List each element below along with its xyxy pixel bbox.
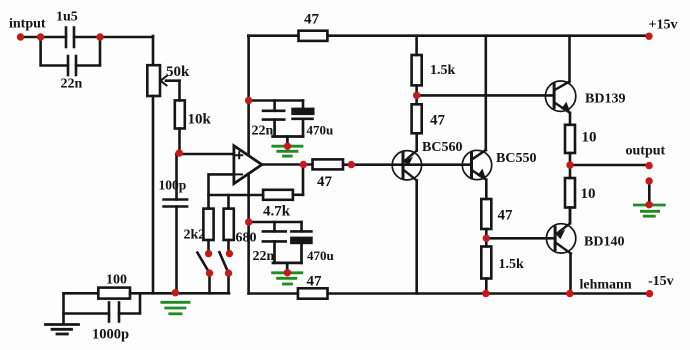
svg-text:BD139: BD139 — [585, 92, 625, 107]
wire 470u lower stub — [300, 222, 303, 231]
wire output ground stub — [648, 183, 651, 204]
svg-text:1.5k: 1.5k — [430, 63, 456, 78]
wire feedback vertical — [302, 165, 305, 195]
wire caps bottom lower — [273, 241, 302, 271]
node input — [17, 33, 24, 40]
svg-text:2k2: 2k2 — [184, 228, 206, 243]
svg-text:10: 10 — [582, 130, 597, 146]
node ground bottom — [284, 269, 291, 276]
svg-text:1000p: 1000p — [92, 327, 129, 343]
svg-text:470u: 470u — [307, 248, 334, 263]
resistor 2k2 — [203, 209, 213, 240]
svg-text:50k: 50k — [166, 64, 190, 80]
capacitor 22n lower — [263, 231, 286, 241]
wire BC550 emitter down — [485, 180, 488, 199]
svg-text:4.7k: 4.7k — [263, 204, 291, 220]
node output gnd top — [645, 177, 652, 184]
ground opamp top (green) — [271, 146, 303, 156]
op-amp U1 — [234, 146, 262, 184]
wire 10 to BD140 — [569, 208, 572, 223]
svg-text:lehmann: lehmann — [580, 278, 632, 293]
node switch1 top — [205, 250, 212, 257]
wire vminus rail — [249, 292, 298, 295]
node 1.5k rail — [482, 290, 489, 297]
wire decouple top — [249, 99, 303, 102]
resistor 680 — [224, 209, 234, 240]
wire pot bottom — [152, 96, 155, 293]
resistor 47 output — [313, 159, 344, 169]
svg-text:10k: 10k — [188, 112, 212, 128]
wire 4.7k right — [293, 194, 303, 197]
capacitor 22n upper — [263, 111, 284, 120]
svg-text:1u5: 1u5 — [56, 10, 78, 25]
node output junction — [566, 161, 573, 168]
node BD139 base — [413, 92, 420, 99]
switch S2 — [219, 240, 228, 293]
wire 22n branch right — [76, 37, 100, 66]
node after 47 — [348, 161, 355, 168]
node +15v — [645, 33, 652, 40]
svg-text:intput: intput — [9, 17, 46, 32]
resistor 10 upper — [565, 125, 575, 153]
wire BD139 collector up — [568, 36, 571, 82]
resistor 100 — [98, 288, 130, 299]
capacitor 100p — [164, 154, 188, 293]
node BD140 base — [483, 235, 490, 242]
transistor BC560 — [392, 151, 421, 181]
resistor 47 bottom — [298, 288, 328, 298]
wire 22n lower stub — [273, 222, 276, 231]
svg-text:BC560: BC560 — [422, 140, 462, 155]
svg-text:470u: 470u — [307, 123, 334, 138]
resistor 1.5k top — [412, 55, 422, 85]
node switch2 top — [226, 250, 233, 257]
wire 2k2 stub — [207, 195, 210, 209]
ground output (green) — [633, 205, 666, 216]
wire 47 to 1.5k right — [485, 229, 488, 247]
wire BD140 base drive — [486, 237, 555, 240]
resistor 1.5k bottom — [481, 247, 491, 279]
node plus input — [176, 149, 183, 156]
resistor 10k — [175, 100, 185, 128]
node output gnd bottom — [645, 201, 652, 208]
svg-text:-15v: -15v — [648, 274, 674, 289]
transistor BD139 — [545, 81, 575, 114]
wire 10k to plus input — [178, 129, 181, 155]
svg-text:22n: 22n — [252, 124, 274, 139]
node ground top — [284, 143, 291, 150]
ground bottom-left — [46, 325, 79, 335]
node rail ground — [172, 289, 179, 296]
svg-text:100p: 100p — [159, 178, 187, 193]
capacitor 470u lower — [291, 231, 311, 243]
resistor 47 top — [299, 31, 328, 41]
node opamp output — [300, 161, 307, 168]
capacitor 22n input — [68, 56, 76, 75]
switch S1 — [197, 240, 209, 293]
wire wiper to 10k — [178, 81, 181, 101]
node vplus tap — [245, 97, 252, 104]
wire input corner down to pot — [152, 36, 155, 65]
wire opamp vplus — [247, 36, 250, 155]
wire input top — [21, 36, 67, 39]
wire ground rail left — [64, 292, 99, 295]
svg-text:22n: 22n — [253, 249, 275, 264]
ground input rail (green) — [160, 302, 190, 314]
wire 22n top stub — [273, 101, 276, 111]
wire 22n branch left — [41, 37, 68, 66]
wire BD139 emitter down — [569, 113, 572, 125]
wire BD140 emitter up — [569, 208, 572, 224]
svg-text:47: 47 — [317, 174, 333, 190]
node cap left — [37, 33, 44, 40]
wire 680 stub — [227, 195, 230, 209]
svg-text:1.5k: 1.5k — [499, 257, 525, 272]
wire 10 to output node — [569, 153, 572, 178]
wire opamp vminus — [247, 174, 250, 294]
resistor 47 right — [481, 199, 491, 229]
wire bottom rail right — [328, 292, 650, 295]
wire 1.5k to 47 — [415, 85, 418, 104]
wire minus input — [209, 174, 264, 195]
svg-text:47: 47 — [498, 208, 514, 224]
svg-text:output: output — [626, 144, 666, 159]
resistor 4.7k — [263, 190, 293, 200]
wire base link — [403, 163, 472, 166]
svg-text:22n: 22n — [61, 77, 83, 92]
wire 1000p left — [64, 312, 110, 315]
wire 1000p right — [119, 293, 140, 313]
wire 1.5k stub top — [415, 36, 418, 55]
wire ground rail right — [130, 292, 229, 295]
wire decouple bottom — [249, 221, 302, 224]
wire output line — [570, 164, 649, 167]
transistor BD140 — [546, 223, 575, 253]
node cap right — [96, 33, 103, 40]
wire 1.5k bottom stub — [485, 279, 488, 294]
node vminus tap — [245, 218, 252, 225]
node -15v — [646, 290, 653, 297]
wire BC550 collector up — [484, 36, 487, 150]
ground opamp bottom (green) — [271, 273, 303, 284]
potentiometer 50k — [147, 65, 179, 96]
wire cap1 right — [74, 36, 153, 39]
wire top rail — [248, 34, 298, 37]
wire to bottom-left ground — [62, 293, 65, 324]
resistor 47 mid — [412, 104, 422, 133]
wire caps bottom upper — [273, 119, 303, 145]
capacitor 1000p — [109, 303, 119, 322]
node switch1 bottom — [206, 269, 213, 276]
svg-text:+15v: +15v — [649, 18, 678, 33]
wire output to bases — [343, 163, 403, 166]
wire opamp output — [262, 163, 313, 166]
node output terminal — [645, 162, 652, 169]
wire BD140 collector down — [569, 254, 572, 294]
wire BC560 emitter up — [415, 133, 418, 150]
svg-text:680: 680 — [236, 231, 257, 246]
svg-text:47: 47 — [304, 12, 320, 28]
capacitor 470u upper — [293, 109, 314, 119]
svg-text:47: 47 — [307, 274, 323, 290]
capacitor 1u5 — [66, 28, 74, 48]
wire 470u top stub — [302, 101, 305, 110]
wire BD139 base drive — [417, 94, 554, 97]
svg-text:47: 47 — [430, 113, 446, 129]
resistor 10 lower — [565, 178, 575, 208]
node switch2 bottom — [225, 269, 232, 276]
svg-text:10: 10 — [581, 186, 596, 202]
svg-text:100: 100 — [106, 273, 127, 288]
transistor BC550 — [462, 150, 491, 180]
wire plus input — [177, 153, 234, 156]
svg-text:BD140: BD140 — [584, 235, 624, 250]
wire top rail right — [327, 34, 648, 37]
svg-text:BC550: BC550 — [496, 151, 536, 166]
node BD140 rail — [566, 290, 573, 297]
wire BC560 collector down — [415, 180, 418, 293]
